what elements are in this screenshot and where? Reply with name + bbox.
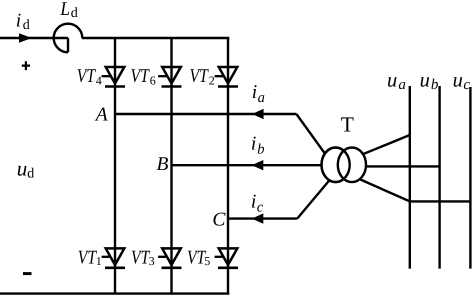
svg-text:u: u	[420, 70, 430, 92]
transformer T winding 2	[338, 148, 366, 183]
svg-text:VT: VT	[190, 66, 209, 87]
svg-text:b: b	[431, 77, 439, 93]
svg-text:a: a	[398, 77, 406, 93]
svg-text:4: 4	[96, 74, 102, 88]
svg-text:A: A	[94, 105, 108, 126]
wire top DC bus left segment	[0, 37, 68, 39]
arrow ic current	[252, 213, 264, 223]
svg-text:C: C	[212, 209, 226, 230]
thyristor VT6	[158, 67, 181, 87]
wire node C phase line	[228, 217, 297, 219]
svg-text:d: d	[27, 167, 34, 182]
svg-text:a: a	[258, 90, 265, 106]
svg-text:3: 3	[149, 254, 155, 268]
wire node B phase line	[172, 164, 328, 166]
svg-text:VT: VT	[77, 66, 96, 87]
thyristor VT5	[215, 248, 238, 267]
arrow ia current	[252, 109, 264, 119]
svg-text:6: 6	[150, 74, 156, 88]
svg-text:1: 1	[96, 254, 102, 268]
svg-text:5: 5	[204, 254, 210, 268]
svg-text:2: 2	[209, 74, 215, 88]
svg-text:c: c	[463, 77, 470, 93]
svg-text:VT: VT	[131, 247, 150, 268]
thyristor VT2	[215, 67, 238, 87]
svg-text:VT: VT	[131, 66, 150, 87]
svg-text:T: T	[341, 112, 354, 136]
wire source bus b	[438, 86, 440, 269]
svg-text:u: u	[17, 157, 28, 181]
svg-text:VT: VT	[78, 247, 97, 268]
wire transformer to bus a diagonal	[356, 135, 410, 157]
svg-text:u: u	[453, 70, 463, 92]
thyristor VT4	[102, 67, 125, 87]
transformer T winding 1	[322, 148, 350, 183]
wire bridge leg 3	[227, 38, 229, 294]
wire node C diagonal to transformer	[297, 176, 333, 219]
transformer T winding 1 outline	[322, 148, 350, 183]
svg-text:i: i	[252, 82, 257, 103]
arrow ib current	[252, 160, 264, 170]
svg-text:i: i	[251, 134, 256, 155]
thyristor VT1	[102, 248, 125, 267]
wire node A phase line	[115, 113, 296, 115]
wire top DC bus right segment	[82, 37, 230, 39]
wire transformer to bus b horizontal	[358, 165, 440, 167]
svg-text:u: u	[387, 70, 397, 92]
minus terminal	[23, 272, 32, 275]
svg-text:d: d	[23, 18, 30, 33]
wire bridge leg 1	[114, 38, 116, 294]
wire bridge leg 2	[170, 38, 172, 294]
wire bottom DC bus	[0, 292, 229, 294]
svg-text:i: i	[16, 11, 21, 32]
svg-text:b: b	[257, 142, 264, 158]
svg-text:i: i	[251, 192, 256, 213]
wire source bus c	[469, 87, 471, 269]
plus terminal	[22, 61, 30, 70]
svg-text:d: d	[71, 6, 78, 21]
svg-text:L: L	[60, 0, 70, 20]
wire node A diagonal to transformer	[296, 114, 331, 162]
arrow id current	[19, 33, 32, 42]
svg-text:B: B	[157, 154, 169, 175]
wire source bus a	[409, 86, 411, 269]
wire transformer to bus c diagonal	[357, 178, 410, 201]
wire transformer to bus c horizontal	[410, 200, 471, 202]
inductor Ld	[54, 24, 83, 53]
svg-text:c: c	[257, 200, 264, 216]
thyristor VT3	[158, 248, 181, 267]
